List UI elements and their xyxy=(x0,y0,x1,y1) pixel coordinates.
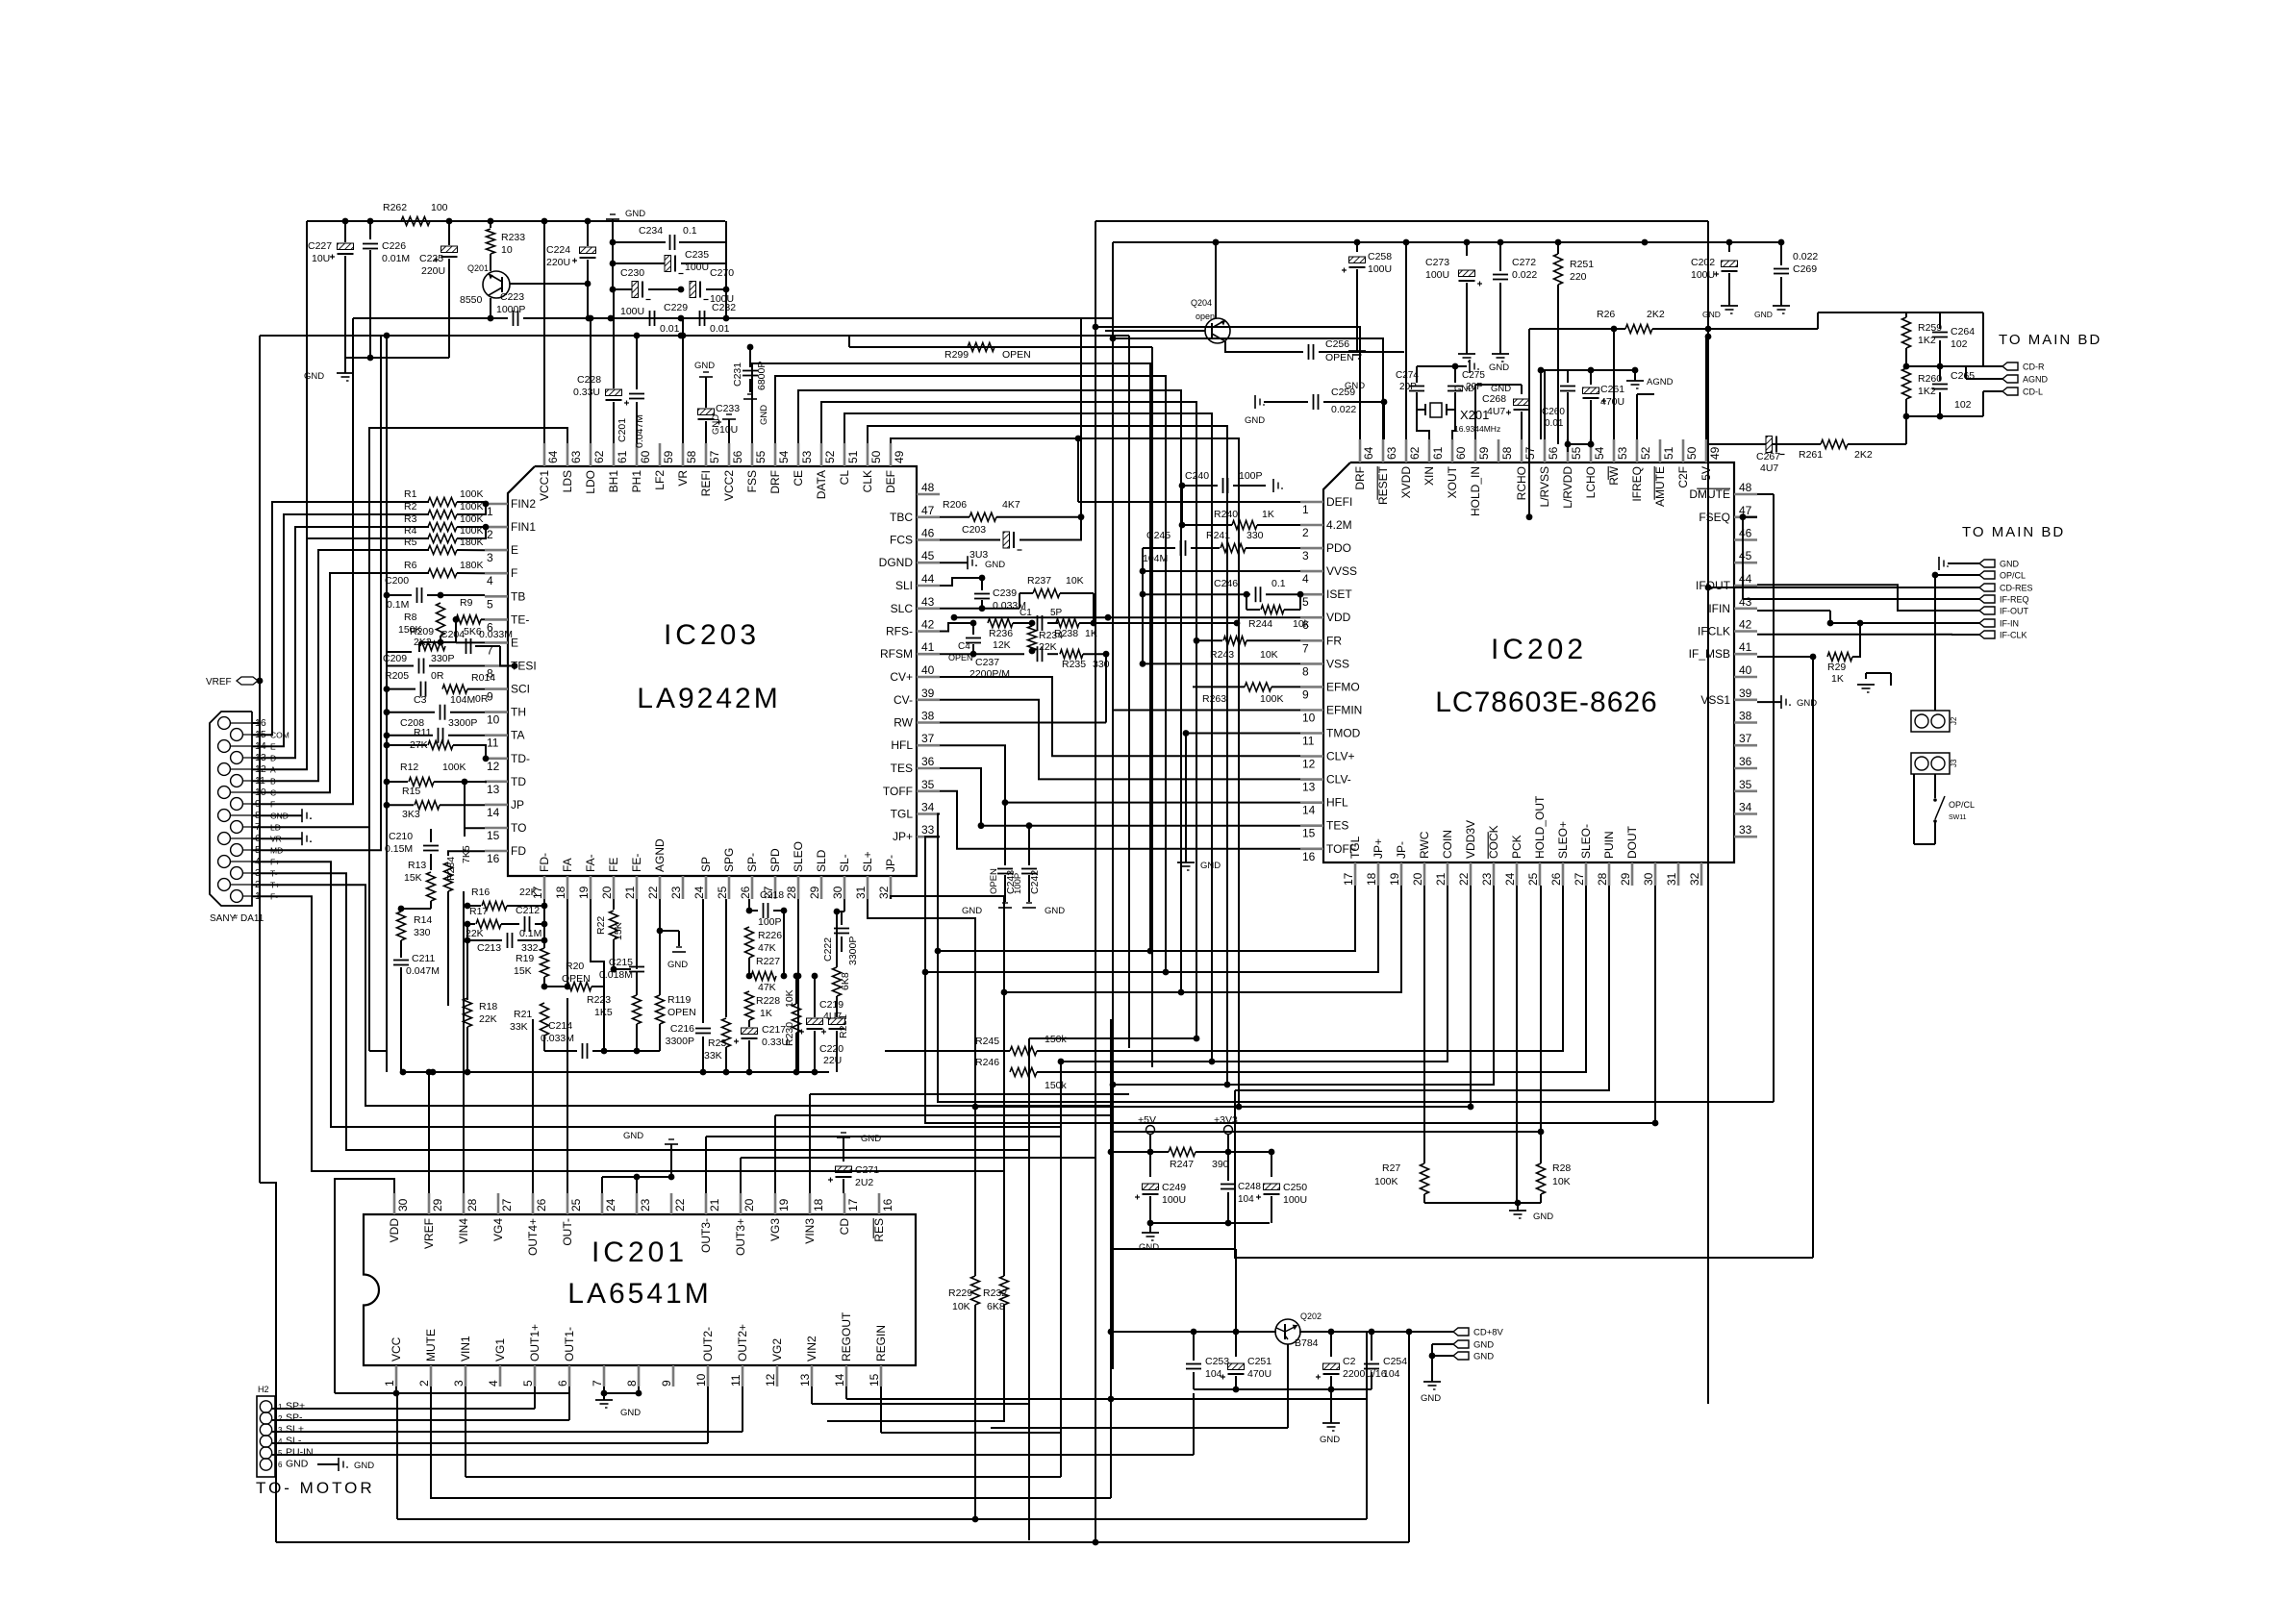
svg-text:CLV-: CLV- xyxy=(1326,773,1351,787)
svg-text:10k: 10k xyxy=(1293,618,1310,630)
svg-text:TB: TB xyxy=(511,589,525,603)
svg-text:49: 49 xyxy=(1708,446,1722,460)
svg-text:34: 34 xyxy=(921,801,935,814)
ground below C2 xyxy=(1330,1389,1332,1423)
svg-text:29: 29 xyxy=(1619,872,1632,886)
svg-text:TMOD: TMOD xyxy=(1326,727,1361,740)
svg-text:3K3: 3K3 xyxy=(402,809,420,820)
wire RFSM pin41 row xyxy=(940,653,973,655)
svg-text:63: 63 xyxy=(1385,446,1398,460)
wire motor SL+ to OUT2+ xyxy=(271,1431,743,1433)
wire x402 long vertical xyxy=(386,336,388,1072)
wire VDD pin30 loop xyxy=(335,1179,394,1393)
capacitor C245 104M + R241 330 on PDO xyxy=(1143,547,1175,549)
ground near H2 pin6 xyxy=(317,1463,339,1465)
svg-text:LDO: LDO xyxy=(584,470,597,494)
IC203 pin 6 TE- xyxy=(485,618,508,621)
svg-text:21: 21 xyxy=(708,1198,721,1212)
svg-text:VVSS: VVSS xyxy=(1326,564,1357,578)
wire CV+ pin40 to CLV+ xyxy=(940,677,1300,756)
svg-text:C275: C275 xyxy=(1462,370,1485,381)
svg-text:DMUTE: DMUTE xyxy=(1689,487,1730,501)
IC201 pin 20 OUT3+ xyxy=(740,1193,743,1214)
svg-text:FE: FE xyxy=(607,858,620,872)
capacitor C260 0.01 xyxy=(1567,370,1569,383)
IC202 pin 10 EFMIN xyxy=(1300,709,1323,712)
svg-text:4U7: 4U7 xyxy=(1487,406,1505,417)
wire PCK24 drop xyxy=(1516,886,1518,1203)
IC203 pin 27 SPD xyxy=(774,876,777,899)
capacitor C269 0.022 xyxy=(1780,242,1782,265)
svg-text:60: 60 xyxy=(639,450,652,463)
IC203 pin 48 nc xyxy=(917,493,940,496)
svg-text:VIN4: VIN4 xyxy=(457,1218,470,1244)
svg-text:2: 2 xyxy=(278,1414,283,1423)
capacitor C201 on pin60 xyxy=(636,336,638,389)
IC201 pin 16 RES xyxy=(878,1193,881,1214)
IC202 pin 63 RESET xyxy=(1382,439,1385,462)
svg-text:0R: 0R xyxy=(431,670,444,682)
svg-text:6K8: 6K8 xyxy=(840,972,851,990)
capacitor C254 104 xyxy=(1371,1332,1372,1361)
capacitor C213 332 xyxy=(467,939,502,941)
svg-text:OPEN: OPEN xyxy=(989,868,999,894)
svg-text:FSEQ: FSEQ xyxy=(1699,511,1730,524)
connector CN pin 3 T- xyxy=(231,867,243,880)
wire Q201 base to C224 node xyxy=(510,283,588,285)
connector CN pin 12 A xyxy=(218,763,231,776)
svg-text:2200U/16: 2200U/16 xyxy=(1343,1368,1387,1380)
IC202 pin 55 L/RVDD xyxy=(1567,439,1570,462)
svg-text:31: 31 xyxy=(854,886,868,899)
svg-text:OPEN: OPEN xyxy=(1002,349,1031,361)
svg-text:44: 44 xyxy=(1739,572,1752,586)
svg-text:5: 5 xyxy=(521,1380,535,1387)
wire LCHO column xyxy=(1567,444,1569,452)
svg-text:VCC2: VCC2 xyxy=(722,470,736,501)
svg-text:470U: 470U xyxy=(1600,396,1624,408)
IC202 pin 47 FSEQ xyxy=(1734,515,1757,518)
svg-text:C235: C235 xyxy=(685,249,709,261)
switch SW11 OP/CL xyxy=(1934,774,1936,798)
svg-text:R14: R14 xyxy=(414,914,432,926)
svg-text:3: 3 xyxy=(1302,549,1309,562)
resistor R243 10K on FR xyxy=(1196,639,1222,641)
svg-text:1: 1 xyxy=(487,505,493,518)
capacitor C258 100U xyxy=(1356,242,1358,252)
capacitor C265 102 xyxy=(1939,366,1941,381)
svg-text:35: 35 xyxy=(921,778,935,791)
capacitor gnd on pin56 VCC2 xyxy=(728,419,730,443)
svg-text:GND: GND xyxy=(620,1408,641,1418)
wire top rail xyxy=(307,220,725,222)
svg-text:C258: C258 xyxy=(1368,251,1392,262)
svg-text:3: 3 xyxy=(278,1426,283,1435)
svg-text:16: 16 xyxy=(881,1198,894,1212)
wire OUT3+ pin20 up xyxy=(740,1158,742,1193)
svg-text:R014: R014 xyxy=(471,672,495,684)
svg-text:0.1: 0.1 xyxy=(1271,578,1286,589)
IC203 pin 9 SCI xyxy=(485,687,508,690)
IC203 pin 44 SLI xyxy=(917,585,940,587)
capacitor C256 OPEN xyxy=(1308,344,1310,360)
svg-text:C4: C4 xyxy=(958,641,970,652)
transistor Q204 open xyxy=(1205,318,1230,343)
svg-text:63: 63 xyxy=(569,450,583,463)
svg-text:0.1M: 0.1M xyxy=(387,599,409,611)
svg-text:28: 28 xyxy=(466,1198,479,1212)
IC201 pin 8 nc xyxy=(638,1365,641,1387)
svg-text:DA11: DA11 xyxy=(240,913,264,924)
svg-text:25: 25 xyxy=(1526,872,1540,886)
svg-text:Q201: Q201 xyxy=(467,263,489,273)
svg-text:61: 61 xyxy=(1431,446,1445,460)
capacitor C226 xyxy=(369,221,371,239)
IC202 pin 58 nc xyxy=(1498,439,1500,462)
svg-text:12: 12 xyxy=(1302,758,1316,771)
svg-text:6K8: 6K8 xyxy=(987,1301,1005,1312)
wire rail below cluster xyxy=(403,1071,829,1073)
svg-text:58: 58 xyxy=(685,450,698,463)
svg-text:7K5: 7K5 xyxy=(461,845,472,863)
svg-text:LF2: LF2 xyxy=(653,470,667,490)
wire MD pin5 riser xyxy=(252,336,381,850)
wire long vertical x1070 xyxy=(1028,1038,1030,1540)
wire R13 bottom to R14 xyxy=(430,901,432,909)
svg-text:14: 14 xyxy=(1302,804,1316,817)
svg-text:R229: R229 xyxy=(948,1287,972,1299)
IC203 pin 29 SLD xyxy=(820,876,823,899)
svg-text:38: 38 xyxy=(1739,710,1752,723)
port GND 2 xyxy=(1453,1352,1469,1360)
svg-text:10: 10 xyxy=(1302,712,1316,725)
connector CN pin 7 LD xyxy=(231,821,243,834)
svg-text:C265: C265 xyxy=(1951,370,1975,382)
wire pin64 VCC1 up xyxy=(543,221,545,443)
svg-text:GND: GND xyxy=(2000,560,2020,569)
IC201 LA6541M body xyxy=(364,1214,916,1365)
svg-text:C218: C218 xyxy=(760,889,784,901)
svg-text:64: 64 xyxy=(546,450,560,463)
svg-text:SLD: SLD xyxy=(815,849,828,872)
svg-text:XVDD: XVDD xyxy=(1399,466,1413,499)
wire +5V rail vertical x1155 xyxy=(1110,1019,1112,1152)
capacitor C237 2200P/M xyxy=(973,653,1024,655)
IC202 pin 21 COIN xyxy=(1447,862,1449,886)
svg-text:HFL: HFL xyxy=(1326,796,1348,810)
svg-text:1K2: 1K2 xyxy=(1918,386,1936,397)
svg-text:OUT1+: OUT1+ xyxy=(528,1324,541,1362)
IC202 pin 3 PDO xyxy=(1300,547,1323,550)
svg-text:GND: GND xyxy=(1200,861,1221,871)
svg-text:C204: C204 xyxy=(441,629,465,640)
IC203 pin 41 RFSM xyxy=(917,653,940,656)
svg-text:C213: C213 xyxy=(477,942,501,954)
svg-text:R238: R238 xyxy=(1054,628,1078,639)
svg-text:FSS: FSS xyxy=(745,470,759,492)
svg-text:36: 36 xyxy=(1739,755,1752,768)
wire C pin10 to R6 xyxy=(252,573,429,792)
resistor R237 10K xyxy=(1020,592,1033,594)
svg-text:IFCLK: IFCLK xyxy=(1698,625,1730,638)
svg-text:100U: 100U xyxy=(1368,263,1392,275)
wire OP/CL down to J2 xyxy=(1934,575,1936,711)
svg-text:0.022: 0.022 xyxy=(1512,269,1537,281)
svg-text:L/RVSS: L/RVSS xyxy=(1538,466,1551,507)
IC203 pin 64 VCC1 xyxy=(543,443,546,466)
svg-text:VIN1: VIN1 xyxy=(459,1336,472,1362)
capacitor C204 xyxy=(466,638,467,654)
svg-text:C246: C246 xyxy=(1214,578,1238,589)
wire COCK23 drop xyxy=(1113,886,1494,1085)
resistor R229 10K xyxy=(974,1107,976,1276)
wire IFIN pin43 to IF-IN xyxy=(1757,610,1830,612)
svg-text:10: 10 xyxy=(487,713,500,727)
svg-text:GND: GND xyxy=(1702,310,1721,319)
svg-text:COCK: COCK xyxy=(1487,825,1500,859)
svg-text:34: 34 xyxy=(1739,801,1752,814)
wire bottom row y1580 xyxy=(396,1393,398,1519)
svg-text:SP: SP xyxy=(699,857,713,872)
capacitor C271 2U2 on CD pin17 xyxy=(837,1137,850,1138)
svg-text:GND: GND xyxy=(1320,1435,1340,1445)
IC203 pin 35 TOFF xyxy=(917,789,940,792)
svg-text:OP/CL: OP/CL xyxy=(2000,571,2026,581)
resistor R223 1K5 xyxy=(636,972,638,995)
svg-text:17: 17 xyxy=(846,1198,860,1212)
IC202 pin 14 HFL xyxy=(1300,801,1323,804)
wire VSS pin8 row xyxy=(1143,662,1300,664)
wire T+ pin2 stair xyxy=(252,885,1113,1106)
wire hold_in row xyxy=(1475,384,1522,386)
wire B pin11 to R5 xyxy=(252,550,429,781)
IC203 pin 57 REFI xyxy=(705,443,708,466)
svg-text:100P: 100P xyxy=(1239,470,1263,482)
IC203 pin 49 DEF xyxy=(890,443,893,466)
capacitor C230 xyxy=(613,288,633,290)
svg-text:19: 19 xyxy=(577,886,591,899)
svg-text:C268: C268 xyxy=(1482,393,1506,405)
wire MUTE pin2 down xyxy=(431,1387,1111,1498)
svg-text:R16: R16 xyxy=(471,887,490,898)
resistor R8 150K xyxy=(437,603,445,636)
svg-text:35: 35 xyxy=(1739,778,1752,791)
resistor R259 1K2 xyxy=(1905,312,1907,317)
svg-text:GND: GND xyxy=(759,405,769,425)
port GND 1 xyxy=(1453,1340,1469,1348)
svg-text:PU-IN: PU-IN xyxy=(286,1447,314,1459)
wire pin28 SLEO down xyxy=(797,899,799,1072)
wire D pin13 to R3 xyxy=(252,527,429,758)
svg-text:13: 13 xyxy=(1302,781,1316,794)
svg-text:R13: R13 xyxy=(408,860,426,871)
svg-text:RESET: RESET xyxy=(1376,465,1390,505)
svg-text:49: 49 xyxy=(893,450,906,463)
resistor R245 150k row xyxy=(885,1050,1010,1052)
svg-text:46: 46 xyxy=(921,527,935,540)
wire L/RVSS column xyxy=(1540,370,1542,439)
IC202 pin 11 TMOD xyxy=(1300,732,1323,735)
svg-text:2200P/M: 2200P/M xyxy=(969,668,1010,680)
IC203 pin 40 CV+ xyxy=(917,676,940,679)
svg-text:VG1: VG1 xyxy=(493,1338,507,1362)
svg-text:CD: CD xyxy=(838,1218,851,1236)
resistor R9 5K6 xyxy=(456,615,481,624)
svg-text:GND: GND xyxy=(1797,698,1817,709)
svg-text:B784: B784 xyxy=(1295,1337,1319,1349)
capacitor C264 102 xyxy=(1939,312,1941,329)
svg-text:33: 33 xyxy=(921,823,935,837)
resistor R26 2K2 xyxy=(1529,328,1625,330)
svg-text:OUT-: OUT- xyxy=(561,1218,574,1246)
IC202 pin 61 XIN xyxy=(1428,439,1431,462)
connector CN pin 11 B xyxy=(231,775,243,787)
svg-text:R18: R18 xyxy=(479,1001,497,1012)
wire x1285 vertical above Q202 xyxy=(1235,1249,1237,1332)
resistor R29 1K xyxy=(1827,653,1852,662)
IC201 pin 9 nc xyxy=(672,1365,675,1387)
resistor R23 33K xyxy=(725,899,727,1017)
svg-text:104M: 104M xyxy=(1143,553,1168,564)
IC203 pin 11 TA xyxy=(485,734,508,737)
capacitor C211 0.047M xyxy=(400,940,402,958)
svg-text:41: 41 xyxy=(1739,640,1752,654)
IC202 pin 13 CLV- xyxy=(1300,778,1323,781)
svg-text:100U: 100U xyxy=(1162,1194,1186,1206)
svg-text:42: 42 xyxy=(1739,618,1752,632)
svg-text:R1: R1 xyxy=(404,488,417,500)
svg-text:R237: R237 xyxy=(1027,575,1051,587)
svg-text:0.047M: 0.047M xyxy=(406,965,440,977)
IC202 pin 6 VDD xyxy=(1300,616,1323,619)
svg-text:VDD: VDD xyxy=(1326,611,1351,624)
svg-text:9: 9 xyxy=(1302,687,1309,701)
svg-text:TBC: TBC xyxy=(890,511,913,524)
svg-text:10: 10 xyxy=(501,244,513,256)
IC203 pin 30 SL- xyxy=(843,876,846,899)
connector CN SANY DA11 body xyxy=(210,712,252,906)
svg-text:C216: C216 xyxy=(670,1023,694,1035)
svg-text:31: 31 xyxy=(1665,872,1678,886)
svg-text:TO: TO xyxy=(511,821,526,835)
svg-text:OUT2+: OUT2+ xyxy=(736,1324,749,1362)
svg-text:47K: 47K xyxy=(758,982,776,993)
svg-text:11: 11 xyxy=(729,1374,743,1387)
svg-text:LDS: LDS xyxy=(561,470,574,492)
svg-text:6: 6 xyxy=(278,1461,283,1469)
wire COM pin15 to R1 xyxy=(252,502,429,735)
IC201 pin 25 OUT- xyxy=(566,1193,569,1214)
svg-text:R262: R262 xyxy=(383,202,407,213)
svg-text:26: 26 xyxy=(1549,872,1563,886)
capacitor C227 xyxy=(344,221,346,242)
svg-text:11: 11 xyxy=(1302,735,1315,748)
capacitor gnd on DGND pin45 xyxy=(940,562,968,563)
wire HOLD_IN59 riser xyxy=(1474,385,1476,439)
svg-text:IF_MSB: IF_MSB xyxy=(1689,647,1730,661)
IC202 pin 2 4.2M xyxy=(1300,524,1323,527)
svg-text:VG4: VG4 xyxy=(491,1218,505,1241)
svg-text:2K2: 2K2 xyxy=(1854,449,1873,461)
svg-text:100K: 100K xyxy=(1260,693,1284,705)
IC202 pin 37 nc xyxy=(1734,744,1757,747)
wire LRVSS56 riser xyxy=(1544,370,1546,439)
svg-text:C237: C237 xyxy=(975,657,999,668)
IC203 pin 16 FD xyxy=(485,850,508,853)
wire long vertical x1139 xyxy=(1095,221,1096,1542)
wire VDD3V22 drop xyxy=(975,886,1471,1107)
wire EFMIN pin10 long xyxy=(1113,710,1300,712)
svg-text:43: 43 xyxy=(921,595,935,609)
svg-text:CV-: CV- xyxy=(894,693,913,707)
wire JP+ pin33 xyxy=(925,837,1655,1123)
IC201 pin 7 nc xyxy=(603,1365,606,1387)
IC203 pin 19 FA- xyxy=(590,876,592,899)
svg-text:CD+8V: CD+8V xyxy=(1473,1328,1504,1338)
resistor R236 12K xyxy=(988,619,1013,628)
svg-text:GND: GND xyxy=(1045,906,1065,916)
IC203 pin 42 RFS- xyxy=(917,630,940,633)
IC203 pin 14 JP xyxy=(485,804,508,807)
svg-text:100U: 100U xyxy=(1691,269,1715,281)
svg-text:VG2: VG2 xyxy=(770,1338,784,1362)
svg-text:GND: GND xyxy=(1421,1393,1441,1404)
capacitor C250 100U xyxy=(1271,1152,1272,1177)
svg-text:30: 30 xyxy=(831,886,844,899)
wire vcc row below IC201 xyxy=(335,1392,569,1394)
svg-text:RFS-: RFS- xyxy=(886,625,913,638)
svg-text:R119: R119 xyxy=(667,994,691,1006)
svg-text:PCK: PCK xyxy=(1510,835,1523,859)
resistor R238 1K xyxy=(1056,619,1079,628)
svg-text:C202: C202 xyxy=(1691,257,1715,268)
svg-text:53: 53 xyxy=(1616,446,1629,460)
wire CD-R node row xyxy=(1906,365,1983,367)
IC202 pin 12 CLV+ xyxy=(1300,755,1323,758)
svg-text:R27: R27 xyxy=(1382,1162,1400,1174)
svg-text:JP-: JP- xyxy=(1395,841,1408,859)
svg-text:2K2: 2K2 xyxy=(1647,309,1665,320)
IC202 pin 4 VVSS xyxy=(1300,570,1323,573)
svg-text:1K: 1K xyxy=(760,1008,772,1019)
IC203 pin 28 SLEO xyxy=(797,876,800,899)
svg-text:R261: R261 xyxy=(1799,449,1823,461)
svg-text:C226: C226 xyxy=(382,240,406,252)
svg-text:GND: GND xyxy=(1473,1352,1494,1362)
IC203 pin 34 TGL xyxy=(917,812,940,815)
resistor R22 15K on pin20 FE xyxy=(613,899,615,910)
svg-text:24: 24 xyxy=(604,1198,617,1212)
wire R3 R4 join to pin2 xyxy=(457,526,486,528)
wire long vertical x1103 xyxy=(1060,1062,1062,1477)
svg-text:SLEO+: SLEO+ xyxy=(1556,821,1570,859)
IC201 pin 18 VIN3 xyxy=(809,1193,812,1214)
svg-text:IFREQ: IFREQ xyxy=(1630,466,1644,502)
ground AGND xyxy=(1634,370,1636,381)
wire F pin9 riser xyxy=(252,318,353,804)
capacitor C220 22U xyxy=(836,996,838,1017)
svg-text:VREF: VREF xyxy=(206,677,232,687)
svg-text:C250: C250 xyxy=(1283,1182,1307,1193)
svg-text:SPG: SPG xyxy=(722,848,736,872)
svg-text:24: 24 xyxy=(692,886,706,899)
svg-text:36: 36 xyxy=(921,755,935,768)
svg-text:C230: C230 xyxy=(620,267,644,279)
svg-text:25: 25 xyxy=(569,1198,583,1212)
IC202 pin 17 TGL xyxy=(1354,862,1357,886)
IC203 pin 3 E xyxy=(485,549,508,552)
capacitor C232 xyxy=(699,311,701,326)
